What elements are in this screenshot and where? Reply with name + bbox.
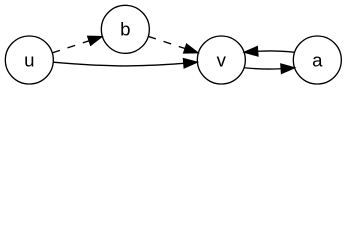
edge u->b dashed wire xyxy=(52,36,102,53)
edge b->v dashed wire xyxy=(148,36,198,53)
edge v->a wire xyxy=(244,64,294,73)
node u xyxy=(5,36,53,84)
svg-text:a: a xyxy=(312,49,323,70)
svg-text:b: b xyxy=(120,19,130,40)
node v xyxy=(197,36,245,84)
svg-text:v: v xyxy=(217,49,227,70)
node b xyxy=(101,5,149,53)
node a xyxy=(293,36,341,84)
edge a->v wire xyxy=(244,47,294,56)
edge u->v wire xyxy=(54,59,198,68)
svg-text:u: u xyxy=(24,49,34,70)
